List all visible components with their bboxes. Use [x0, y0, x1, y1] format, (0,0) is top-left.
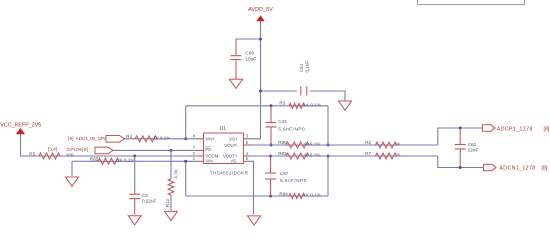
svg-text:VOUT+: VOUT+: [223, 153, 238, 158]
svg-text:THS4551IDGKR: THS4551IDGKR: [210, 171, 249, 176]
svg-text:C43: C43: [278, 119, 287, 124]
svg-text:[8]: [8]: [544, 126, 550, 132]
svg-text:U1: U1: [220, 126, 227, 132]
svg-text:R85: R85: [90, 157, 99, 162]
svg-text:[3,4]: [3,4]: [48, 146, 57, 151]
svg-text:C62: C62: [468, 142, 477, 147]
svg-text:VOCM: VOCM: [205, 153, 218, 158]
svg-text:100: 100: [66, 152, 74, 157]
svg-text:ADCP1_1278: ADCP1_1278: [497, 126, 533, 132]
svg-text:VS+: VS+: [229, 137, 238, 142]
svg-text:GPIO6[9]: GPIO6[9]: [66, 147, 88, 152]
svg-text:VIN+: VIN+: [205, 137, 215, 142]
svg-text:[8]: [8]: [542, 166, 548, 172]
svg-text:VOUT-: VOUT-: [224, 143, 238, 148]
svg-text:PD: PD: [205, 147, 211, 152]
svg-text:R5: R5: [29, 151, 35, 156]
svg-text:22nF: 22nF: [468, 148, 479, 153]
svg-text:5,6nF/NP0: 5,6nF/NP0: [280, 178, 307, 183]
svg-text:1K 0,1%: 1K 0,1%: [117, 158, 134, 163]
svg-text:49,9 1%: 49,9 1%: [304, 141, 321, 146]
svg-text:C89: C89: [245, 51, 254, 57]
svg-text:4.7K: 4.7K: [173, 168, 178, 178]
svg-text:R2: R2: [365, 140, 371, 145]
svg-text:ADCN1_1278: ADCN1_1278: [499, 166, 535, 172]
svg-text:C6: C6: [142, 193, 148, 198]
svg-text:1K: 1K: [395, 152, 402, 157]
svg-text:R4: R4: [126, 134, 132, 139]
svg-text:AVDD_5V: AVDD_5V: [248, 7, 273, 13]
svg-text:1K 0,1%: 1K 0,1%: [304, 102, 321, 107]
svg-text:R80: R80: [278, 140, 287, 145]
svg-text:10uF: 10uF: [245, 57, 256, 63]
svg-text:C67: C67: [280, 171, 289, 176]
svg-text:5,6nF/NP0: 5,6nF/NP0: [278, 126, 305, 131]
svg-text:VS-: VS-: [230, 159, 238, 164]
svg-text:VCC_REFP_2V5: VCC_REFP_2V5: [0, 123, 41, 129]
svg-text:R12: R12: [165, 198, 170, 207]
svg-text:49,9 1%: 49,9 1%: [304, 152, 321, 157]
svg-text:1K 0,1%: 1K 0,1%: [153, 135, 170, 140]
svg-text:R84: R84: [279, 191, 288, 196]
svg-text:0,22uF: 0,22uF: [142, 198, 156, 203]
svg-text:0,1uF: 0,1uF: [305, 61, 310, 73]
svg-text:1K 0,1%: 1K 0,1%: [304, 192, 321, 197]
svg-text:R83: R83: [278, 151, 287, 156]
svg-text:1K: 1K: [395, 141, 402, 146]
svg-text:R7: R7: [365, 151, 371, 156]
svg-text:[5]: [5]: [68, 136, 73, 141]
svg-text:R3: R3: [279, 100, 285, 105]
svg-text:VIN-: VIN-: [205, 159, 214, 164]
svg-text:ADC1_IN_OPA: ADC1_IN_OPA: [76, 136, 108, 141]
svg-text:C61: C61: [299, 63, 304, 72]
